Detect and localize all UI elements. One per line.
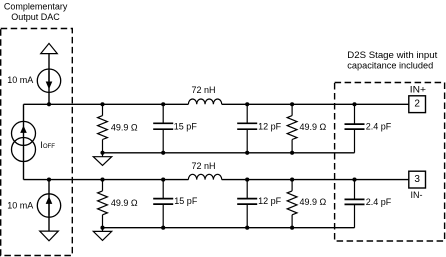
svg-text:capacitance included: capacitance included [347,61,433,71]
wire: top ground rail [103,152,355,154]
capacitor C2 12 pF (top) [246,104,248,153]
svg-text:10 mA: 10 mA [7,75,33,85]
wire: top rail IN+ [24,103,409,105]
wire: IOFF branch vertical [23,104,25,179]
junction dots bottom ground rail [100,226,294,230]
pin box 2 (IN+) [409,96,426,113]
junction dots top rail [47,102,357,106]
svg-text:2: 2 [414,99,420,110]
wire: bottom rail IN- [24,179,409,181]
svg-text:IN-: IN- [411,190,423,200]
resistor R1 49.9 ohm top-left [98,116,108,140]
capacitor C4 15 pF (bottom) [162,180,164,228]
wire: bottom ground rail [103,227,355,229]
ground (top net) [102,153,104,157]
svg-text:49.9 Ω: 49.9 Ω [111,123,138,133]
svg-text:72 nH: 72 nH [192,85,216,95]
svg-text:12 pF: 12 pF [258,196,282,206]
power arrow down (bottom of DAC) [40,231,59,241]
pin box 3 (IN-) [409,171,426,188]
svg-text:3: 3 [414,174,420,185]
inductor L1 72 nH (top) [188,99,221,104]
current source IOFF (two circles) [12,121,36,145]
svg-text:12 pF: 12 pF [258,121,282,131]
svg-text:15 pF: 15 pF [174,196,198,206]
capacitor C1 15 pF (top) [162,104,164,153]
wire stubs R1 (top) [102,104,104,153]
wire: DAC top source vertical [48,54,50,105]
svg-text:49.9 Ω: 49.9 Ω [111,198,138,208]
svg-text:Complementary: Complementary [4,1,68,11]
resistor R4 49.9 ohm bottom-right [287,191,297,215]
current source I2 10 mA (bottom) [37,194,60,217]
svg-text:2.4 pF: 2.4 pF [366,122,392,132]
inductor L2 72 nH (bottom) [188,174,221,179]
resistor R2 49.9 ohm top-right [287,116,297,140]
capacitor C5 12 pF (bottom) [246,180,248,228]
svg-text:IN+: IN+ [410,85,426,95]
wire: DAC bottom source vertical [48,180,50,232]
D2S dashed box [335,83,445,242]
svg-text:10 mA: 10 mA [7,200,33,210]
junction dots top ground rail [100,151,294,155]
capacitor C3 2.4 pF (top, in D2S) [354,104,356,153]
current source I1 10 mA (top) [37,69,60,92]
svg-text:72 nH: 72 nH [192,161,216,171]
ground (bottom net) [102,228,104,232]
svg-text:49.9 Ω: 49.9 Ω [300,197,327,207]
svg-text:D2S Stage with input: D2S Stage with input [347,50,438,60]
svg-text:2.4 pF: 2.4 pF [366,197,392,207]
capacitor C6 2.4 pF (bottom, in D2S) [354,180,356,228]
svg-text:49.9 Ω: 49.9 Ω [300,122,327,132]
junction dots bottom rail [47,178,357,182]
resistor R3 49.9 ohm bottom-left [98,191,108,215]
svg-text:Output DAC: Output DAC [11,12,60,22]
DAC dashed box [1,29,73,256]
svg-text:15 pF: 15 pF [174,121,198,131]
power arrow up (top of DAC) [41,43,58,53]
